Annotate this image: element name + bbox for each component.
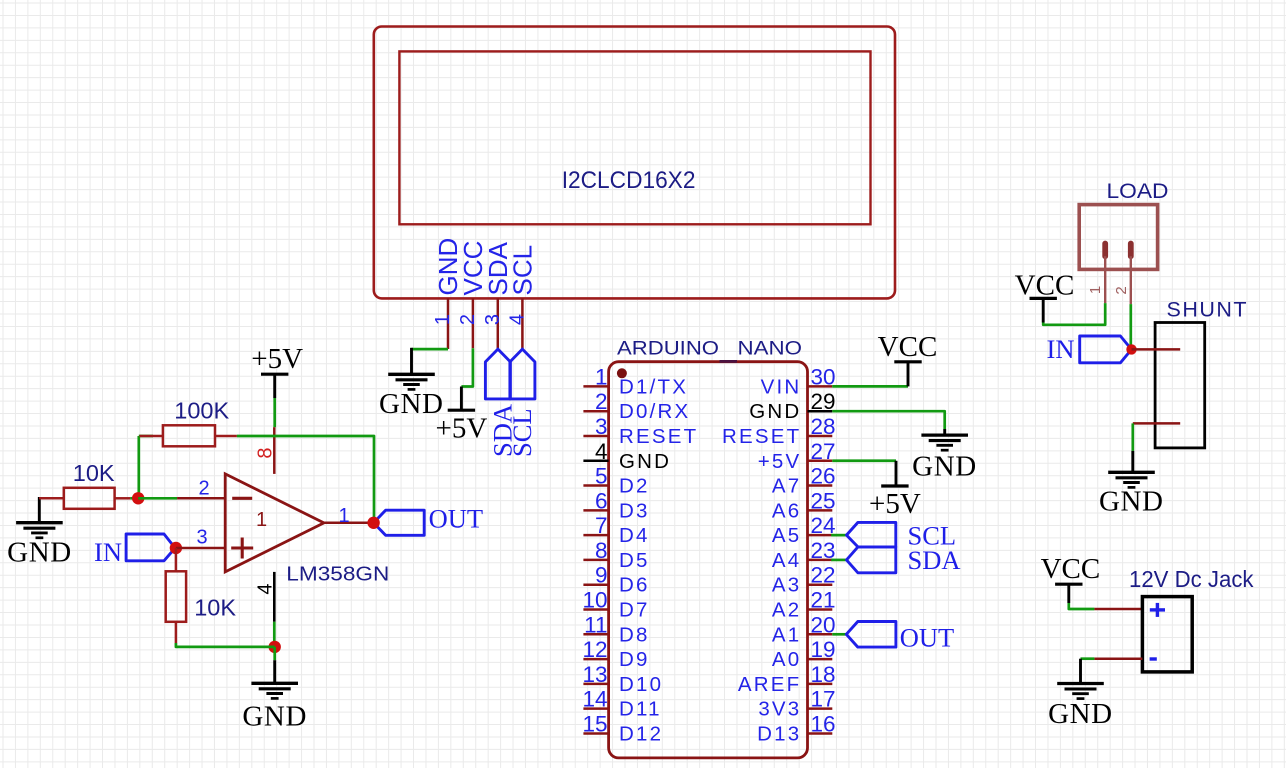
svg-text:6: 6 bbox=[595, 488, 608, 513]
svg-text:3: 3 bbox=[595, 414, 608, 439]
Arduino pin 10 lead bbox=[583, 608, 608, 611]
+5V stem at pin27 bbox=[895, 461, 898, 486]
net flag IN (op-amp input) bbox=[126, 534, 175, 561]
svg-text:SDA: SDA bbox=[908, 545, 961, 575]
wire jack minus to ground bbox=[1081, 657, 1095, 660]
svg-text:10K: 10K bbox=[194, 595, 236, 621]
LCD display window inner rectangle bbox=[399, 51, 870, 224]
svg-text:GND: GND bbox=[7, 537, 72, 569]
junction dot at IN node bbox=[170, 542, 182, 554]
+5V stem above op-amp bbox=[273, 374, 276, 398]
wire node to op-amp pin2 bbox=[138, 497, 177, 500]
svg-text:3: 3 bbox=[482, 314, 504, 325]
wire R3 to ground node bbox=[176, 643, 275, 647]
wire corner to 100K left lead bbox=[139, 435, 153, 438]
svg-text:GND: GND bbox=[619, 450, 671, 473]
svg-text:OUT: OUT bbox=[429, 504, 483, 534]
DC jack plus symbol bbox=[1150, 608, 1165, 611]
svg-text:ARDUINO: ARDUINO bbox=[617, 339, 719, 360]
LCD pin 3 (SDA) lead bbox=[497, 298, 500, 349]
part name underscore on border bbox=[720, 360, 738, 363]
shunt pin 1 lead bbox=[1132, 348, 1181, 351]
LCD pin 2 (VCC) lead bbox=[472, 298, 475, 348]
svg-text:D9: D9 bbox=[619, 648, 650, 671]
resistor R1 10K right lead bbox=[115, 497, 131, 500]
Arduino pin 26 lead bbox=[808, 484, 833, 487]
ground stem at DC jack bbox=[1079, 659, 1082, 684]
wire LCD pin2 to +5V bbox=[461, 348, 473, 386]
svg-text:3V3: 3V3 bbox=[758, 698, 801, 721]
Arduino pin 1 lead bbox=[583, 385, 608, 388]
wire LCD pin1 to ground bbox=[412, 348, 449, 351]
resistor R3 10K bottom lead bbox=[175, 622, 178, 643]
svg-text:25: 25 bbox=[811, 488, 836, 513]
Arduino pin 17 lead bbox=[808, 707, 833, 710]
svg-text:21: 21 bbox=[811, 588, 836, 613]
Arduino pin 6 lead bbox=[583, 509, 608, 512]
op-amp plus sign bbox=[231, 546, 253, 549]
svg-text:GND: GND bbox=[242, 700, 307, 732]
svg-text:+5V: +5V bbox=[758, 450, 802, 473]
svg-text:16: 16 bbox=[811, 711, 836, 736]
net flag IN at shunt bbox=[1080, 336, 1132, 363]
wire pin29 to ground bbox=[832, 411, 944, 429]
net port SCL at LCD pin4 bbox=[510, 349, 535, 399]
Arduino pin 9 lead bbox=[583, 583, 608, 586]
svg-text:D1/TX: D1/TX bbox=[619, 375, 688, 398]
wire shunt pin2 to ground bbox=[1131, 423, 1134, 451]
svg-text:9: 9 bbox=[595, 563, 608, 588]
svg-text:1: 1 bbox=[338, 505, 349, 527]
svg-text:A2: A2 bbox=[772, 599, 801, 622]
op-amp U1 pin 2 lead bbox=[177, 497, 225, 500]
VCC stem at VIN bbox=[907, 362, 910, 387]
resistor R1 10K body bbox=[64, 488, 115, 509]
ground stem left of R1 bbox=[38, 497, 41, 523]
shunt pin 2 lead bbox=[1133, 422, 1180, 425]
op-amp U1 pin 3 lead bbox=[176, 547, 225, 550]
Arduino pin 29 lead bbox=[808, 410, 833, 413]
svg-text:2: 2 bbox=[198, 478, 209, 500]
svg-text:26: 26 bbox=[811, 464, 836, 489]
wire LOAD pin2 to IN node bbox=[1129, 304, 1132, 349]
resistor R2 100K body bbox=[163, 425, 215, 446]
wire R1 to inverting node bbox=[130, 497, 138, 500]
Arduino pin 2 lead bbox=[583, 410, 608, 413]
ground symbol left of R1 bbox=[16, 521, 63, 524]
junction dot IN node bbox=[1126, 344, 1136, 354]
junction dot inverting input node bbox=[132, 492, 144, 504]
svg-text:2: 2 bbox=[1113, 286, 1130, 294]
shunt resistor body bbox=[1155, 323, 1205, 448]
LOAD contact stub 2 bbox=[1128, 244, 1134, 257]
svg-text:12V Dc Jack: 12V Dc Jack bbox=[1129, 566, 1254, 592]
svg-text:AREF: AREF bbox=[738, 673, 801, 696]
Arduino pin 22 lead bbox=[808, 583, 833, 586]
svg-text:RESET: RESET bbox=[619, 425, 698, 448]
LCD module I2CLCD16X2 outer body bbox=[374, 27, 895, 299]
svg-text:A6: A6 bbox=[772, 499, 801, 522]
ground stem below op-amp bbox=[273, 660, 276, 683]
Arduino pin 8 lead bbox=[583, 559, 608, 562]
wire pin24 to SCL port bbox=[831, 534, 847, 537]
Arduino pin 5 lead bbox=[583, 484, 608, 487]
LOAD pin 1 lead bbox=[1104, 256, 1106, 303]
ground stem at LCD pin1 bbox=[410, 348, 413, 375]
svg-text:+5V: +5V bbox=[435, 413, 487, 445]
VCC bar at LOAD bbox=[1030, 297, 1057, 300]
DC jack body bbox=[1142, 597, 1192, 672]
Arduino pin-1 marker dot bbox=[617, 368, 627, 378]
svg-text:GND: GND bbox=[749, 400, 801, 423]
svg-text:4: 4 bbox=[595, 439, 608, 464]
svg-text:5: 5 bbox=[595, 464, 608, 489]
svg-text:VCC: VCC bbox=[878, 331, 938, 363]
wire VCC to jack plus bbox=[1069, 603, 1095, 609]
svg-text:27: 27 bbox=[811, 439, 836, 464]
svg-text:10K: 10K bbox=[73, 460, 115, 486]
Arduino pin 14 lead bbox=[583, 707, 608, 710]
LOAD pin 2 lead bbox=[1130, 256, 1132, 304]
resistor R3 10K top lead bbox=[175, 548, 178, 571]
net flag OUT (op-amp output) bbox=[374, 510, 425, 535]
wire VIN to VCC bbox=[832, 385, 908, 388]
svg-text:19: 19 bbox=[811, 637, 836, 662]
wire VCC to LOAD pin1 bbox=[1043, 303, 1105, 325]
svg-text:A1: A1 bbox=[772, 623, 801, 646]
svg-text:SHUNT: SHUNT bbox=[1167, 297, 1249, 321]
Arduino pin 30 lead bbox=[808, 385, 833, 388]
Arduino Nano U2 body bbox=[609, 362, 808, 758]
svg-text:10: 10 bbox=[582, 588, 607, 613]
DC jack minus pin lead bbox=[1094, 657, 1142, 660]
ground symbol at shunt bbox=[1108, 471, 1155, 474]
svg-text:A4: A4 bbox=[772, 549, 801, 572]
LCD pin 1 (GND) lead bbox=[447, 298, 450, 349]
ground symbol at LCD pin1 bbox=[388, 373, 435, 376]
svg-text:+5V: +5V bbox=[869, 488, 921, 520]
wire pin4 to ground node bbox=[273, 622, 276, 647]
svg-text:2: 2 bbox=[595, 389, 608, 414]
op-amp U1 LM358GN triangle bbox=[225, 474, 324, 572]
svg-text:SCL: SCL bbox=[507, 408, 537, 457]
Arduino pin 3 lead bbox=[583, 435, 608, 438]
Arduino pin 19 lead bbox=[808, 658, 833, 661]
svg-text:D4: D4 bbox=[619, 524, 650, 547]
svg-text:17: 17 bbox=[811, 687, 836, 712]
resistor R2 100K left lead bbox=[140, 435, 163, 438]
VCC stem at DC jack bbox=[1067, 584, 1070, 603]
svg-text:7: 7 bbox=[595, 513, 608, 538]
VCC bar at DC jack bbox=[1055, 583, 1082, 586]
svg-text:A3: A3 bbox=[772, 574, 801, 597]
Arduino pin 27 lead bbox=[808, 460, 833, 463]
svg-text:8: 8 bbox=[595, 538, 608, 563]
+5V bar at pin27 bbox=[881, 484, 908, 487]
op-amp U1 pin 1 lead (output) bbox=[324, 522, 374, 525]
DC jack plus pin lead bbox=[1094, 608, 1142, 611]
svg-text:22: 22 bbox=[811, 563, 836, 588]
svg-text:GND: GND bbox=[1099, 486, 1164, 518]
svg-text:D11: D11 bbox=[619, 698, 662, 721]
Arduino pin 21 lead bbox=[808, 608, 833, 611]
svg-text:OUT: OUT bbox=[900, 623, 954, 653]
svg-text:15: 15 bbox=[582, 711, 607, 736]
svg-text:LOAD: LOAD bbox=[1107, 180, 1169, 203]
resistor R2 100K right lead bbox=[215, 435, 237, 438]
svg-text:SCL: SCL bbox=[508, 245, 538, 296]
net port SCL at pin24 bbox=[847, 522, 896, 547]
ground stem at pin29 bbox=[943, 429, 946, 435]
svg-text:D3: D3 bbox=[619, 499, 650, 522]
svg-text:14: 14 bbox=[582, 687, 607, 712]
svg-text:D7: D7 bbox=[619, 599, 650, 622]
svg-text:A0: A0 bbox=[772, 648, 801, 671]
op-amp U1 pin 4 lead bbox=[273, 572, 276, 622]
connector LOAD body bbox=[1079, 205, 1157, 270]
+5V bar at LCD pin2 bbox=[448, 409, 475, 412]
svg-text:IN: IN bbox=[94, 537, 122, 567]
op-amp U1 pin 8 lead bbox=[273, 427, 276, 474]
+5V bar above op-amp bbox=[261, 373, 288, 376]
svg-text:D13: D13 bbox=[757, 722, 801, 745]
svg-text:VIN: VIN bbox=[761, 375, 802, 398]
svg-text:D12: D12 bbox=[619, 722, 663, 745]
wire pin23 to SDA port bbox=[831, 559, 847, 562]
ground symbol at DC jack bbox=[1057, 682, 1104, 685]
net port SDA at pin23 bbox=[847, 547, 896, 573]
DC jack minus symbol bbox=[1150, 657, 1157, 660]
svg-text:12: 12 bbox=[582, 637, 607, 662]
svg-text:D2: D2 bbox=[619, 475, 650, 498]
svg-text:VCC: VCC bbox=[1041, 553, 1101, 585]
Arduino pin 13 lead bbox=[583, 683, 608, 686]
LCD pin 4 (SCL) lead bbox=[521, 298, 524, 349]
ground symbol at pin29 bbox=[921, 433, 968, 436]
VCC stem at LOAD bbox=[1042, 298, 1045, 322]
Arduino pin 12 lead bbox=[583, 658, 608, 661]
ground symbol below op-amp bbox=[251, 682, 298, 685]
wire pin27 to +5V bbox=[832, 459, 896, 462]
svg-text:1: 1 bbox=[432, 314, 454, 325]
svg-text:A5: A5 bbox=[772, 524, 801, 547]
svg-text:29: 29 bbox=[811, 389, 836, 414]
wire +5V to op-amp pin8 bbox=[273, 398, 276, 427]
wire pin20 to OUT flag bbox=[832, 633, 846, 636]
Arduino pin 23 lead bbox=[808, 559, 833, 562]
svg-text:8: 8 bbox=[254, 447, 276, 458]
svg-text:NANO: NANO bbox=[738, 339, 803, 360]
net flag OUT at pin20 bbox=[846, 622, 896, 648]
svg-text:GND: GND bbox=[912, 451, 977, 483]
Arduino pin 24 lead bbox=[808, 534, 833, 537]
svg-text:D8: D8 bbox=[619, 623, 650, 646]
+5V stem at LCD pin2 bbox=[460, 387, 463, 411]
svg-text:D5: D5 bbox=[619, 549, 650, 572]
svg-text:13: 13 bbox=[582, 662, 607, 687]
svg-text:4: 4 bbox=[254, 583, 276, 594]
svg-text:1: 1 bbox=[1087, 286, 1104, 294]
svg-text:D10: D10 bbox=[619, 673, 663, 696]
svg-text:1: 1 bbox=[595, 364, 608, 389]
resistor R1 10K left lead bbox=[39, 497, 64, 500]
svg-text:20: 20 bbox=[811, 612, 836, 637]
svg-text:A7: A7 bbox=[772, 475, 801, 498]
Arduino pin 11 lead bbox=[583, 633, 608, 636]
svg-text:I2CLCD16X2: I2CLCD16X2 bbox=[562, 167, 696, 194]
op-amp minus sign bbox=[232, 497, 252, 500]
svg-text:11: 11 bbox=[584, 612, 607, 637]
Arduino pin 18 lead bbox=[808, 683, 833, 686]
Arduino pin 15 lead bbox=[583, 732, 608, 735]
svg-text:18: 18 bbox=[811, 662, 836, 687]
ground stem at shunt bbox=[1131, 451, 1134, 472]
svg-text:LM358GN: LM358GN bbox=[286, 562, 389, 585]
svg-text:D6: D6 bbox=[619, 574, 650, 597]
Arduino pin 20 lead bbox=[808, 633, 833, 636]
Arduino pin 7 lead bbox=[583, 534, 608, 537]
svg-text:GND: GND bbox=[379, 388, 444, 420]
svg-text:GND: GND bbox=[1048, 698, 1113, 730]
net port SDA at LCD pin3 bbox=[485, 349, 510, 399]
svg-text:4: 4 bbox=[507, 314, 529, 325]
LOAD contact stub 1 bbox=[1102, 244, 1108, 257]
junction dot output node bbox=[367, 517, 379, 529]
Arduino pin 16 lead bbox=[808, 732, 833, 735]
svg-text:3: 3 bbox=[196, 526, 207, 548]
svg-text:1: 1 bbox=[256, 509, 267, 531]
VCC bar at VIN bbox=[894, 360, 921, 363]
svg-text:D0/RX: D0/RX bbox=[619, 400, 690, 423]
resistor R3 10K body bbox=[166, 571, 186, 622]
svg-text:RESET: RESET bbox=[722, 425, 801, 448]
Arduino pin 28 lead bbox=[808, 435, 833, 438]
svg-text:VCC: VCC bbox=[1015, 270, 1075, 302]
svg-text:2: 2 bbox=[457, 314, 479, 325]
wire ground node down bbox=[273, 647, 276, 660]
wire 100K to output node bbox=[237, 436, 374, 518]
svg-text:28: 28 bbox=[811, 414, 836, 439]
svg-text:100K: 100K bbox=[174, 397, 229, 423]
svg-text:+5V: +5V bbox=[251, 343, 303, 375]
Arduino pin 25 lead bbox=[808, 509, 833, 512]
wire 10K junction up to 100K bbox=[137, 436, 140, 495]
svg-text:IN: IN bbox=[1047, 334, 1075, 364]
junction dot ground node bbox=[269, 641, 281, 653]
Arduino pin 4 lead bbox=[583, 460, 608, 463]
svg-text:30: 30 bbox=[811, 364, 836, 389]
